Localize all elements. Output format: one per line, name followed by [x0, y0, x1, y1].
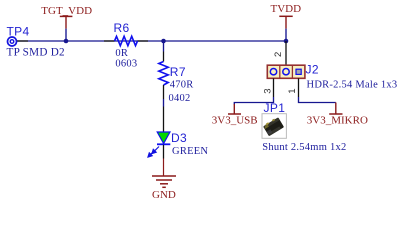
pin: TP4 pin (black) — [16, 40, 28, 42]
wire: pin 1 to 3V3_MIKRO — [299, 97, 336, 103]
pin: R6 pin 1 — [104, 40, 115, 42]
wire: TVDD stub to junction — [285, 29, 287, 41]
svg-text:3V3_USB: 3V3_USB — [212, 114, 258, 126]
wire: pin 3 to 3V3_USB — [234, 97, 273, 105]
svg-text:TVDD: TVDD — [271, 3, 302, 15]
connector J2 body — [267, 65, 305, 78]
svg-text:TP SMD D2: TP SMD D2 — [7, 47, 65, 59]
svg-text:Shunt 2.54mm 1x2: Shunt 2.54mm 1x2 — [262, 142, 346, 153]
resistor R7 — [159, 62, 168, 86]
svg-text:1: 1 — [287, 89, 298, 94]
svg-text:J2: J2 — [306, 63, 319, 77]
pin: J2 pin 1 — [298, 78, 300, 97]
pin: R6 pin 2 — [138, 40, 149, 42]
svg-text:2: 2 — [273, 52, 284, 57]
pin: J2 pin 2 — [285, 41, 287, 65]
pin: R7 pin 2 — [163, 85, 165, 99]
power port TVDD (bar + stub) — [279, 16, 292, 28]
wire: R7 to D3 — [163, 99, 165, 107]
resistor R6 — [115, 36, 138, 45]
pin: R7 pin 1 — [163, 52, 165, 62]
pin: D3 cathode pin — [163, 145, 165, 159]
junction at TGT_VDD — [64, 39, 69, 44]
svg-text:HDR-2.54 Male 1x3: HDR-2.54 Male 1x3 — [307, 80, 398, 91]
wire: junction to R7 — [163, 41, 165, 52]
LED D3 emission arrows — [148, 147, 159, 158]
svg-text:JP1: JP1 — [264, 101, 286, 115]
wire: main horizontal net TGT_VDD — [16, 40, 286, 42]
svg-text:TP4: TP4 — [7, 25, 30, 39]
pin: J2 pin 3 — [273, 78, 275, 97]
svg-text:D3: D3 — [171, 131, 187, 145]
svg-text:3: 3 — [263, 89, 274, 94]
power port 3V3_USB (stub + bar) — [228, 104, 241, 114]
junction at R7 branch — [161, 39, 166, 44]
wire: GND net (dark red) — [163, 159, 165, 177]
power port 3V3_MIKRO (stub + bar) — [329, 103, 342, 115]
J2 pad ring pin 2 — [283, 69, 289, 75]
J2 pad square pin 1 — [296, 69, 301, 74]
svg-text:0603: 0603 — [115, 58, 137, 69]
jumper JP1 shunt drawing — [263, 117, 284, 137]
svg-text:TGT_VDD: TGT_VDD — [41, 5, 92, 17]
svg-text:R7: R7 — [170, 65, 186, 79]
test point TP4 — [8, 37, 17, 46]
J2 pad ring pin 3 — [270, 69, 276, 75]
pin: D3 anode pin — [163, 107, 165, 133]
LED D3 — [157, 132, 170, 144]
wire: TGT_VDD stub to main wire — [65, 29, 67, 41]
svg-text:3V3_MIKRO: 3V3_MIKRO — [307, 114, 368, 126]
ground symbol GND — [152, 176, 176, 187]
jumper JP1 image frame — [262, 114, 286, 139]
junction at TVDD — [284, 39, 289, 44]
svg-text:GREEN: GREEN — [172, 146, 208, 157]
svg-text:0402: 0402 — [169, 93, 191, 104]
svg-text:R6: R6 — [114, 21, 130, 35]
svg-text:GND: GND — [152, 189, 176, 201]
svg-text:470R: 470R — [170, 80, 194, 91]
power port TGT_VDD (bar + stub) — [60, 16, 73, 28]
